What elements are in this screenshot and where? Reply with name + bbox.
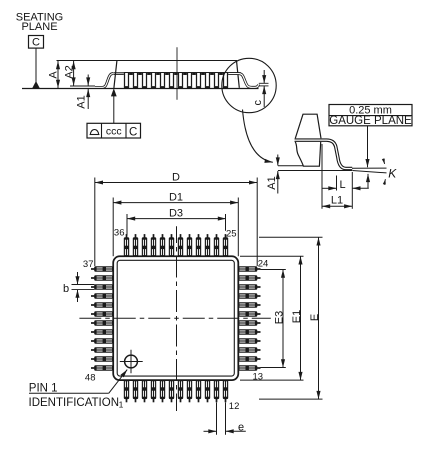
seating plane baseline <box>22 88 259 90</box>
svg-text:36: 36 <box>114 228 125 239</box>
dimension E3 <box>261 270 286 368</box>
package bottom extension line <box>278 165 303 167</box>
label PIN 1 IDENTIFICATION <box>29 382 120 409</box>
svg-text:e: e <box>238 421 244 433</box>
svg-text:D3: D3 <box>169 207 183 219</box>
svg-text:C: C <box>129 126 137 138</box>
package top reference line <box>57 60 238 62</box>
package body outer outline <box>113 256 238 380</box>
svg-text:C: C <box>32 37 40 49</box>
svg-text:12: 12 <box>229 401 240 412</box>
svg-text:A2: A2 <box>63 65 75 78</box>
svg-text:PIN 1: PIN 1 <box>29 382 58 394</box>
svg-text:E: E <box>309 314 321 321</box>
dimension D <box>95 171 257 266</box>
L/L1 extension lines <box>321 144 323 209</box>
package body inner outline <box>117 260 234 376</box>
svg-text:1: 1 <box>119 400 124 410</box>
dimension E1 <box>240 256 304 380</box>
gauge plane label box <box>329 104 412 127</box>
extension line for A1/A2 <box>70 85 95 87</box>
seating plane line <box>278 170 352 172</box>
left lead (side view) <box>95 74 113 88</box>
pin 1 identification circle <box>120 350 143 374</box>
dimension A <box>48 61 60 88</box>
dimension c (lead thickness) <box>252 70 269 107</box>
detail circle <box>222 58 276 112</box>
left pins 37-48 <box>91 266 113 370</box>
bottom pins 1-12 <box>124 380 228 402</box>
svg-text:D: D <box>172 171 180 183</box>
detail body upper half <box>295 114 321 138</box>
detail body lower half <box>295 142 320 166</box>
top pins 36-25 <box>124 234 228 256</box>
svg-text:L1: L1 <box>331 194 343 206</box>
dimension E <box>259 237 323 399</box>
dimension A1 (detail) <box>266 155 278 194</box>
K angle sloped seating line <box>352 171 386 173</box>
feature control frame (coplanarity ccc C) <box>87 123 141 138</box>
right lead with upturned tip (side view) <box>229 74 259 88</box>
dimension e <box>204 403 246 435</box>
K lower arrow <box>367 174 369 188</box>
side view centerline <box>176 47 178 99</box>
detail lead <box>295 140 353 168</box>
datum triangle on seating plane <box>32 81 40 88</box>
svg-text:A: A <box>48 71 60 79</box>
svg-text:c: c <box>252 99 264 105</box>
svg-text:PLANE: PLANE <box>21 21 57 33</box>
label SEATING PLANE <box>16 12 63 34</box>
dimension b <box>63 272 95 302</box>
K angle gauge plane line <box>352 167 387 169</box>
leader curve from detail circle to gauge drawing <box>243 110 273 163</box>
svg-text:D1: D1 <box>169 191 183 203</box>
svg-text:48: 48 <box>85 372 96 383</box>
dimension L <box>322 179 369 191</box>
gauge plane leader arrow <box>367 126 369 167</box>
frame leader with arrow to seating plane <box>111 88 117 96</box>
svg-text:b: b <box>63 283 69 295</box>
vertical centerline <box>176 226 178 411</box>
datum leader line <box>35 48 37 82</box>
K angle tick arrows <box>383 159 384 164</box>
lead comb (12 leads, side view) <box>124 72 228 89</box>
svg-text:A1: A1 <box>266 176 278 189</box>
svg-text:L: L <box>339 179 345 191</box>
pin 1 leader line <box>29 392 109 394</box>
right pins 24-13 <box>238 266 260 370</box>
svg-text:25: 25 <box>226 228 237 239</box>
dimension A2 <box>63 61 75 86</box>
dimension D3 <box>127 207 226 235</box>
svg-text:13: 13 <box>253 371 264 382</box>
body parting lines <box>114 72 242 74</box>
dimension D1 <box>113 191 238 256</box>
right body bevel <box>237 61 240 88</box>
svg-text:24: 24 <box>258 259 269 270</box>
svg-text:37: 37 <box>83 259 94 270</box>
dimension L1 <box>322 194 352 206</box>
svg-text:E1: E1 <box>291 310 303 323</box>
svg-text:GAUGE PLANE: GAUGE PLANE <box>329 115 412 127</box>
svg-text:ccc: ccc <box>106 126 122 138</box>
svg-text:K: K <box>388 167 397 181</box>
svg-text:E3: E3 <box>273 311 285 324</box>
horizontal centerline <box>79 317 270 319</box>
datum box C <box>29 36 44 49</box>
left body bevel <box>114 61 117 88</box>
dimension A1 <box>75 75 88 110</box>
svg-text:A1: A1 <box>75 95 87 108</box>
svg-text:IDENTIFICATION: IDENTIFICATION <box>29 397 120 409</box>
